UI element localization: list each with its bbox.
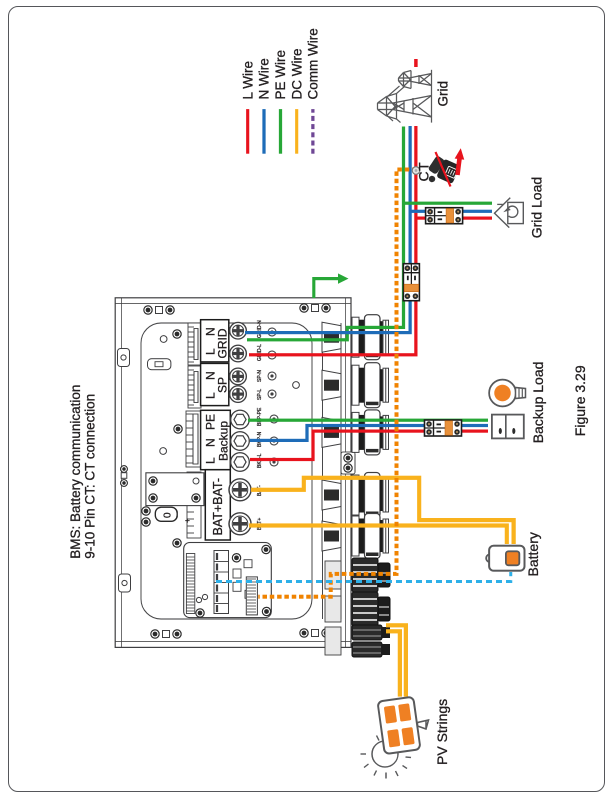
DC switch busbar plate bbox=[146, 473, 204, 506]
label box GRID bbox=[201, 320, 230, 362]
Backup L screw bbox=[231, 453, 250, 472]
panel hole c bbox=[158, 510, 165, 517]
DC switch 0 knob bbox=[155, 507, 177, 521]
grid load house icon bbox=[495, 198, 524, 228]
CT clamp bbox=[428, 155, 461, 184]
legend PE wire swatch bbox=[279, 109, 282, 154]
svg-text:Figure 3.29: Figure 3.29 bbox=[572, 365, 588, 436]
inverter chassis outer box bbox=[115, 298, 351, 648]
legend L wire swatch bbox=[246, 109, 249, 154]
svg-text:GRID-L: GRID-L bbox=[257, 344, 263, 361]
svg-text:SP-N: SP-N bbox=[257, 370, 263, 382]
battery icon bbox=[486, 546, 524, 571]
terminal small screw BKP-L bbox=[270, 458, 278, 466]
BAT- screw bbox=[229, 479, 251, 501]
label box BAT+BAT- bbox=[205, 470, 230, 540]
chassis corner screw group bottom-left bbox=[300, 629, 330, 637]
terminal tiny labels bbox=[257, 320, 263, 530]
svg-text:0: 0 bbox=[163, 512, 174, 518]
svg-text:BMS: Battery communication: BMS: Battery communication bbox=[68, 385, 83, 559]
comm board RJ45 jack row bbox=[214, 551, 229, 614]
chassis corner screw group top-left bbox=[151, 630, 181, 638]
round connector nut 2 bbox=[325, 596, 341, 622]
label box Backup bbox=[201, 410, 231, 469]
GRID L screw bbox=[230, 345, 247, 362]
wire N blue grid main bbox=[245, 126, 410, 333]
backup lamp icon bbox=[489, 380, 525, 407]
legend Comm wire swatch bbox=[311, 109, 314, 154]
svg-text:BAT+BAT-: BAT+BAT- bbox=[211, 478, 225, 536]
CT red diagonal bbox=[436, 152, 451, 187]
backup load breaker bbox=[425, 420, 462, 436]
svg-text:N: N bbox=[204, 438, 218, 447]
BAT+ screw bbox=[229, 513, 251, 535]
SP L screw bbox=[230, 386, 247, 403]
comm board bbox=[184, 543, 272, 618]
comm board small parts bbox=[196, 560, 257, 603]
panel hole d bbox=[293, 382, 300, 389]
comm board bottom pin connector bbox=[246, 577, 257, 615]
wire DC yellow PV outer bbox=[386, 625, 406, 696]
terminal comb Backup bbox=[186, 411, 201, 467]
comm board screws bbox=[173, 539, 271, 617]
svg-text:Backup: Backup bbox=[217, 421, 231, 461]
label box SP bbox=[201, 363, 230, 405]
GRID N screw bbox=[230, 322, 247, 339]
svg-text:BKP-PE: BKP-PE bbox=[257, 407, 263, 426]
DC switch screws bbox=[142, 507, 192, 526]
terminal small screw BKP-N bbox=[270, 437, 278, 445]
PV MC4 connector pair bbox=[352, 625, 390, 657]
svg-text:Grid: Grid bbox=[436, 81, 451, 107]
panel hole a bbox=[160, 336, 167, 343]
svg-text:SP: SP bbox=[216, 377, 230, 393]
svg-text:SP-L: SP-L bbox=[257, 389, 263, 400]
svg-text:PE Wire: PE Wire bbox=[273, 50, 288, 100]
backup loads box icon bbox=[492, 415, 524, 439]
cable gland BAT bbox=[322, 514, 389, 559]
grid inline breaker bbox=[403, 264, 419, 301]
cable gland SP bbox=[322, 363, 389, 408]
wire DC yellow BAT+ bbox=[249, 526, 507, 545]
svg-text:Backup Load: Backup Load bbox=[530, 362, 546, 444]
panel slot bbox=[148, 359, 171, 370]
cable gland Backup bbox=[322, 410, 389, 455]
round connector meter comm bbox=[352, 592, 390, 626]
svg-text:GRID: GRID bbox=[216, 328, 230, 358]
terminal small screw GRID-N bbox=[268, 328, 276, 336]
ground PE arrow bbox=[314, 273, 349, 298]
wire L red grid main bbox=[249, 126, 416, 355]
chassis corner screw group top-right bbox=[144, 306, 174, 314]
wire DC yellow PV inner bbox=[386, 631, 400, 696]
svg-text:9-10 Pin CT: CT connection: 9-10 Pin CT: CT connection bbox=[83, 394, 98, 559]
svg-text:N Wire: N Wire bbox=[257, 58, 272, 99]
svg-text:+: + bbox=[183, 518, 192, 523]
wire PE green backup bbox=[248, 419, 488, 422]
Backup N screw bbox=[231, 432, 250, 451]
grid load breaker bbox=[426, 208, 463, 224]
terminal small screw SP-N bbox=[268, 372, 276, 380]
chassis edge tab 3 bbox=[119, 574, 131, 592]
wire PE green grid main bbox=[247, 127, 404, 340]
Backup PE screw bbox=[231, 410, 250, 429]
svg-text:Grid Load: Grid Load bbox=[529, 177, 545, 238]
round connector nut 1 bbox=[325, 561, 341, 589]
terminal small screw SP-L bbox=[268, 390, 276, 398]
comm wire blue dashed BMS bbox=[216, 572, 511, 582]
inner wall lines bbox=[323, 323, 342, 619]
cable gland 4 bbox=[322, 473, 389, 518]
PV panel stand bbox=[418, 720, 429, 729]
chassis bottom tab screws bbox=[341, 452, 355, 474]
svg-text:PE: PE bbox=[204, 414, 218, 430]
terminal comb GRID bbox=[188, 323, 201, 365]
wire L red grid-load drop bbox=[416, 216, 492, 219]
round connector BAT comm bbox=[352, 558, 390, 592]
terminal comb SP bbox=[188, 366, 201, 408]
svg-text:Comm Wire: Comm Wire bbox=[306, 28, 321, 99]
sun icon bbox=[361, 733, 412, 779]
svg-text:L: L bbox=[204, 392, 218, 399]
PV panel icon bbox=[377, 697, 420, 754]
panel hole b bbox=[160, 448, 167, 455]
svg-text:PV Strings: PV Strings bbox=[434, 699, 450, 765]
SP N screw bbox=[230, 368, 247, 385]
legend DC wire swatch bbox=[295, 109, 298, 154]
wire N blue grid-load drop bbox=[410, 210, 492, 213]
svg-text:GRID-N: GRID-N bbox=[257, 320, 263, 338]
panel screw b bbox=[174, 425, 182, 433]
chassis edge screw group bbox=[121, 466, 128, 487]
terminal small screw GRID-L bbox=[268, 351, 276, 359]
panel screw a bbox=[173, 330, 181, 338]
chassis corner screw group bottom-right bbox=[300, 304, 330, 312]
round connector nut 3 bbox=[325, 627, 341, 655]
wire L red backup bbox=[250, 431, 488, 459]
svg-text:L Wire: L Wire bbox=[240, 61, 255, 100]
svg-text:Battery: Battery bbox=[525, 532, 541, 576]
inverter inner panel bbox=[141, 323, 312, 619]
wire PE green grid-load drop bbox=[404, 202, 493, 205]
svg-text:DC Wire: DC Wire bbox=[289, 49, 304, 100]
wire L red stub right of tower bbox=[414, 59, 418, 67]
CT red arrow bbox=[453, 148, 466, 176]
terminal small screw BKP-PE bbox=[270, 415, 278, 423]
grid transmission tower bbox=[378, 70, 432, 123]
comm wire orange dashed CT bbox=[258, 170, 416, 597]
wire N blue backup bbox=[250, 426, 488, 441]
cable gland GRID bbox=[322, 315, 389, 360]
legend N wire swatch bbox=[262, 109, 265, 154]
CT sensor ring bbox=[412, 167, 420, 175]
chassis edge tab 1 bbox=[118, 349, 130, 367]
terminal comb BAT bbox=[187, 472, 201, 538]
svg-text:L: L bbox=[204, 457, 218, 464]
wire DC yellow BAT- bbox=[251, 478, 514, 544]
